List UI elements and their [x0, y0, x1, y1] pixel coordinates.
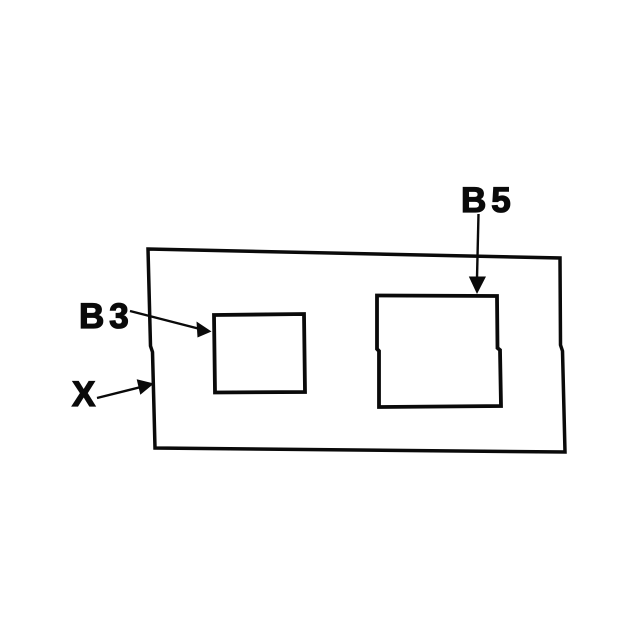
svg-text:X: X [72, 375, 100, 414]
leader arrow from B5 to large rectangle [469, 214, 486, 294]
leader arrow from X to outer rectangle edge [97, 379, 154, 398]
svg-text:B3: B3 [79, 297, 134, 336]
box B5 (large inner rectangle) [377, 296, 501, 408]
box B3 (small inner rectangle) [214, 314, 305, 393]
leader arrow from B3 to small rectangle [130, 311, 212, 338]
svg-text:B5: B5 [461, 181, 516, 220]
box X (outer rectangle) [148, 249, 565, 452]
